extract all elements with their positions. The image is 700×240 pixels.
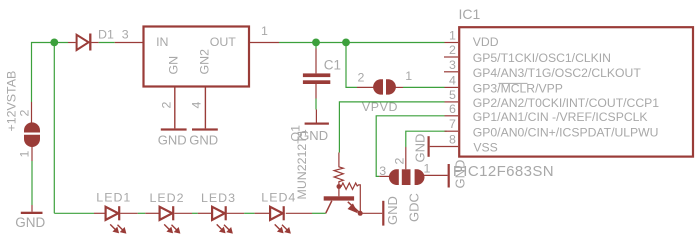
resonator pin 1 lead to ground (423, 174, 448, 176)
MCLR overline (499, 82, 528, 84)
capacitor polarized right plate (386, 79, 396, 94)
wire +12VSTAB supply to top rail (32, 43, 69, 103)
svg-text:GND: GND (15, 215, 45, 230)
svg-text:5: 5 (449, 88, 456, 102)
wire D1 to regulator (99, 42, 115, 44)
svg-text:7: 7 (449, 117, 456, 131)
wire GP2 net from IC pin 5 (339, 102, 444, 153)
svg-text:GN: GN (167, 56, 181, 75)
IC pin 2 stub (444, 56, 458, 58)
node junction top-left (50, 39, 58, 47)
transistor Q1 base bar (324, 196, 354, 200)
resistor R zigzag (334, 167, 343, 182)
resonator middle block (402, 169, 411, 185)
diode D1 cathode pin (91, 42, 98, 44)
svg-text:3: 3 (122, 28, 129, 42)
LED2 cathode pin (175, 212, 193, 214)
svg-text:3: 3 (379, 164, 386, 178)
svg-text:4: 4 (449, 73, 456, 87)
capacitor VPVD pin 2 lead (357, 86, 374, 88)
svg-text:GP1/AN1/CIN -/VREF/ICSPCLK: GP1/AN1/CIN -/VREF/ICSPCLK (473, 110, 648, 124)
svg-text:+12VSTAB: +12VSTAB (5, 71, 19, 132)
LED3 anode pin (198, 212, 211, 214)
regulator pin 4 wire (204, 87, 206, 129)
svg-text:D1: D1 (98, 27, 114, 41)
svg-text:GP4/AN3/T1G/OSC2/CLKOUT: GP4/AN3/T1G/OSC2/CLKOUT (473, 66, 642, 80)
capacitor C1 bottom pin (315, 84, 317, 99)
svg-text:2: 2 (449, 43, 456, 57)
svg-text:LED1: LED1 (96, 191, 131, 205)
ground bar under C1 (305, 123, 329, 125)
wire GP0 net from IC pin 7 to resonator pin 2 (406, 131, 447, 147)
ground bar under regulator left (161, 128, 187, 130)
svg-text:GP5/T1CKI/OSC1/CLKIN: GP5/T1CKI/OSC1/CLKIN (473, 51, 611, 65)
svg-text:OUT: OUT (210, 35, 237, 49)
svg-text:2: 2 (393, 158, 407, 165)
IC1 box (459, 27, 693, 156)
wire LED1 to LED2 (138, 212, 146, 214)
capacitor polarized left plate (373, 79, 383, 94)
LED1 anode pin (94, 212, 105, 214)
svg-text:1: 1 (405, 69, 412, 83)
svg-text:VDD: VDD (473, 35, 499, 49)
regulator pin 2 wire (174, 87, 176, 129)
LED2 (160, 206, 180, 233)
svg-text:MUN2212T1: MUN2212T1 (295, 129, 309, 199)
resistor R2 zigzag to emitter (339, 183, 360, 211)
LED1 (106, 206, 126, 233)
supply pin top (31, 102, 33, 124)
capacitor C1 top pin (315, 49, 317, 74)
LED4 (270, 206, 290, 233)
IC pin 6 stub (445, 115, 459, 117)
svg-text:3: 3 (449, 58, 456, 72)
LED4 cathode pin (286, 212, 312, 214)
regulator pin 1 out (249, 42, 279, 44)
wire GP1 net from IC pin 6 to resonator pin 3 (376, 116, 444, 177)
LED1 cathode pin (120, 212, 138, 214)
svg-text:GND: GND (189, 132, 218, 147)
node junction VPVD branch (342, 39, 350, 47)
wire LED4 to Q1 collector (312, 212, 326, 214)
wire LED2 to LED3 (192, 212, 198, 214)
capacitor pin 1 lead (395, 86, 403, 88)
ground pin under C1 (315, 110, 317, 123)
svg-text:GND: GND (385, 196, 400, 225)
transistor emitter lead (348, 202, 360, 213)
svg-text:PIC12F683SN: PIC12F683SN (453, 163, 554, 180)
svg-text:2: 2 (18, 110, 32, 117)
ground pin bottom-left (31, 205, 33, 212)
LED3 cathode pin (227, 212, 245, 214)
diode D1 (77, 34, 91, 51)
IC pin 7 stub (445, 130, 459, 132)
wire junction down to LED rail (53, 43, 55, 214)
regulator pin 3 (115, 42, 143, 44)
IC pin 3 stub (444, 71, 458, 73)
ground bar bottom-left (21, 212, 43, 214)
wire VPVD branch down and to cap (346, 43, 357, 88)
transistor collector lead (326, 201, 332, 214)
svg-text:LED2: LED2 (150, 191, 185, 205)
supply symbol upper plate (24, 122, 40, 132)
svg-text:4: 4 (190, 102, 204, 109)
svg-text:IN: IN (156, 35, 168, 49)
ground bar at emitter (382, 201, 384, 226)
svg-text:IC1: IC1 (459, 6, 481, 22)
ground bar at resonator (448, 164, 450, 188)
node junction above C1 (312, 39, 320, 47)
svg-text:GDC: GDC (407, 193, 422, 222)
node base junction dot (337, 184, 342, 189)
svg-text:LED4: LED4 (261, 191, 296, 205)
ground bar at IC pin 8 (428, 136, 430, 157)
svg-text:GP0/AN0/CIN+/ICSPDAT/ULPWU: GP0/AN0/CIN+/ICSPDAT/ULPWU (473, 125, 659, 139)
supply pin bottom (31, 146, 33, 161)
svg-text:1: 1 (261, 24, 268, 38)
regulator U box (144, 27, 250, 87)
LED4 anode pin (255, 212, 269, 214)
svg-text:2: 2 (358, 71, 365, 85)
svg-text:1: 1 (424, 162, 431, 176)
svg-text:C1: C1 (324, 58, 341, 73)
wire VPVD to IC pin 4 (403, 86, 445, 88)
LED rail wire (54, 212, 94, 214)
svg-text:2: 2 (160, 102, 174, 109)
supply symbol lower plate (24, 135, 40, 147)
IC pin 1 stub (445, 42, 459, 44)
svg-text:LED3: LED3 (201, 191, 236, 205)
svg-text:1: 1 (18, 151, 32, 158)
wire to C1 (315, 43, 317, 49)
resistor lead from GP2 (338, 153, 340, 168)
resistor to base node (338, 181, 340, 196)
svg-text:GND: GND (413, 134, 428, 163)
resonator left plate (389, 169, 399, 185)
svg-text:GND: GND (158, 132, 187, 147)
svg-text:GP2/AN2/T0CKI/INT/COUT/CCP1: GP2/AN2/T0CKI/INT/COUT/CCP1 (473, 96, 659, 110)
capacitor C1 (303, 73, 330, 84)
svg-text:GN2: GN2 (198, 49, 212, 75)
wire C1 to ground (315, 99, 317, 110)
wire emitter to ground (360, 212, 382, 214)
resonator pin 3 lead (379, 175, 390, 177)
resonator right plate (415, 169, 425, 185)
LED3 (212, 206, 232, 233)
svg-text:6: 6 (449, 102, 456, 116)
IC pin 5 stub (445, 101, 459, 103)
svg-text:VSS: VSS (473, 141, 497, 155)
wire supply to GND (31, 161, 33, 205)
svg-text:1: 1 (449, 29, 456, 43)
wire LED3 to LED4 (244, 212, 254, 214)
ground bar under regulator right (192, 128, 218, 130)
resonator pin 2 lead up (405, 147, 407, 169)
transistor emitter arrowhead (348, 204, 357, 212)
svg-text:8: 8 (449, 133, 456, 147)
wire main VDD rail (279, 42, 445, 44)
wire pin 8 VSS to ground (430, 146, 458, 148)
IC pin 4 stub (445, 86, 459, 88)
node emitter junction dot (358, 211, 363, 216)
LED2 anode pin (145, 212, 158, 214)
diode D1 anode pin (68, 42, 76, 44)
